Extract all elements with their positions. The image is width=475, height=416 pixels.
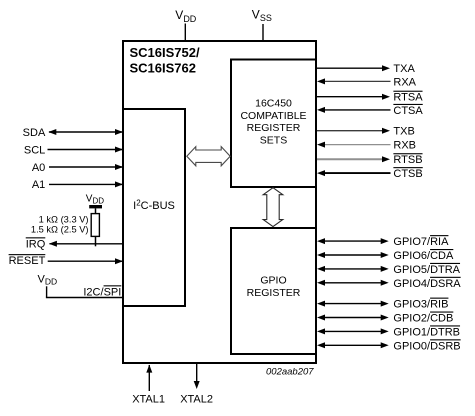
svg-text:VDD: VDD [38,273,58,286]
svg-text:SETS: SETS [260,134,287,146]
svg-text:GPIO1/DTRB: GPIO1/DTRB [393,326,460,338]
svg-text:CTSA: CTSA [393,105,423,117]
svg-text:SDA: SDA [23,127,46,139]
svg-text:GPIO6/CDA: GPIO6/CDA [393,250,454,262]
svg-text:SC16IS752/: SC16IS752/ [130,45,200,60]
svg-text:SC16IS762: SC16IS762 [130,61,197,76]
svg-text:VDD: VDD [175,8,197,24]
svg-text:RXB: RXB [393,140,416,152]
svg-text:I2C/SPI: I2C/SPI [83,286,121,298]
svg-text:GPIO5/DTRA: GPIO5/DTRA [393,264,460,276]
svg-text:A1: A1 [32,179,45,191]
svg-text:002aab207: 002aab207 [266,367,314,378]
svg-text:RXA: RXA [393,76,416,88]
svg-text:XTAL1: XTAL1 [132,394,165,406]
svg-text:TXB: TXB [393,126,414,138]
svg-text:GPIO3/RIB: GPIO3/RIB [393,299,448,311]
svg-text:SCL: SCL [24,144,45,156]
svg-text:1 kΩ (3.3 V): 1 kΩ (3.3 V) [39,215,89,225]
svg-text:RTSB: RTSB [393,154,422,166]
svg-text:CTSB: CTSB [393,168,422,180]
svg-text:RTSA: RTSA [393,92,423,104]
svg-text:XTAL2: XTAL2 [180,394,213,406]
svg-text:GPIO7/RIA: GPIO7/RIA [393,236,449,248]
svg-text:GPIO: GPIO [260,274,286,286]
svg-text:GPIO2/CDB: GPIO2/CDB [393,313,453,325]
svg-text:VSS: VSS [252,7,272,23]
svg-text:16C450: 16C450 [255,98,292,110]
svg-text:I2C-BUS: I2C-BUS [133,198,175,212]
svg-text:1.5 kΩ (2.5 V): 1.5 kΩ (2.5 V) [31,224,89,234]
svg-text:GPIO0/DSRB: GPIO0/DSRB [393,340,460,352]
svg-text:A0: A0 [32,162,45,174]
svg-text:REGISTER: REGISTER [247,287,301,299]
svg-text:RESET: RESET [9,255,46,267]
svg-text:GPIO4/DSRA: GPIO4/DSRA [393,278,461,290]
svg-text:IRQ: IRQ [26,238,46,250]
svg-text:TXA: TXA [393,63,415,75]
svg-text:VDD: VDD [86,194,104,206]
svg-text:REGISTER: REGISTER [247,122,301,134]
svg-text:COMPATIBLE: COMPATIBLE [240,110,306,122]
